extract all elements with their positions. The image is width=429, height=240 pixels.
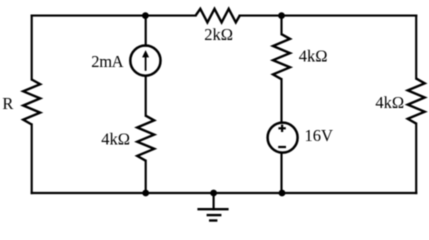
svg-text:2kΩ: 2kΩ xyxy=(204,25,233,44)
svg-text:4kΩ: 4kΩ xyxy=(375,93,404,112)
svg-text:R: R xyxy=(2,94,13,113)
svg-text:4kΩ: 4kΩ xyxy=(299,46,328,65)
svg-text:2mA: 2mA xyxy=(91,52,123,71)
svg-text:4kΩ: 4kΩ xyxy=(101,129,130,148)
svg-text:16V: 16V xyxy=(305,126,334,145)
